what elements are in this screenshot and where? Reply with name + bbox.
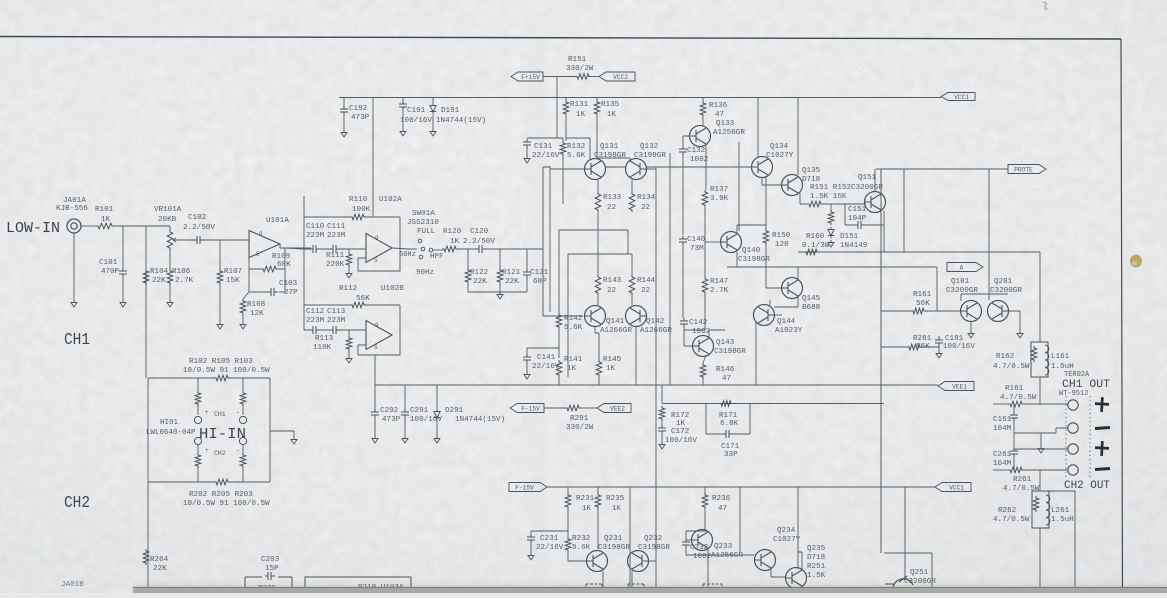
- wire to terminal 3: [1014, 448, 1068, 450]
- svg-text:R151: R151: [568, 56, 587, 64]
- terminal CH1 +: [1068, 400, 1078, 410]
- svg-text:Q145: Q145: [802, 295, 821, 303]
- wire C140 to C142: [682, 245, 684, 318]
- svg-text:R146: R146: [716, 366, 735, 374]
- wire Q140 collector column: [738, 142, 740, 231]
- svg-text:4.7/0.5W: 4.7/0.5W: [1000, 394, 1037, 402]
- wire C191 down: [402, 110, 404, 129]
- svg-text:10/0.5W 91 100/0.5W: 10/0.5W 91 100/0.5W: [183, 367, 270, 375]
- svg-text:C291: C291: [410, 407, 429, 415]
- svg-text:R161: R161: [913, 291, 932, 299]
- svg-text:A1256GR: A1256GR: [713, 129, 745, 137]
- transistor Q134: [752, 157, 773, 178]
- net tag VEE1: [938, 382, 974, 391]
- ground C292: [372, 436, 378, 443]
- transistor Q140: [721, 232, 742, 253]
- capacitor C291: [401, 409, 409, 418]
- wire Q233 base: [686, 539, 692, 541]
- wire down R122: [467, 249, 469, 270]
- resistor R262: [1033, 496, 1039, 512]
- capacitor C112: [310, 326, 320, 334]
- transistor Q233: [692, 530, 713, 551]
- svg-text:R137: R137: [710, 186, 728, 194]
- wire CH2 supply line: [547, 486, 935, 488]
- capacitor C172: [658, 425, 666, 434]
- handwritten plus CH1: [1095, 397, 1110, 413]
- svg-text:C131: C131: [534, 143, 553, 151]
- svg-text:22K: 22K: [153, 565, 167, 573]
- svg-text:D718: D718: [802, 176, 821, 184]
- wire caps net 2: [304, 329, 366, 331]
- wire to R231: [567, 487, 569, 493]
- svg-text:R107: R107: [224, 268, 242, 276]
- centre fold shading: [520, 37, 570, 593]
- resistor R236: [702, 493, 708, 509]
- svg-text:U102B: U102B: [381, 285, 404, 293]
- wire R262 box to bottom: [1039, 528, 1041, 590]
- wire input column: [549, 166, 551, 312]
- resistor R145: [596, 360, 602, 377]
- ground C101: [120, 300, 126, 307]
- svg-text:220K: 220K: [326, 261, 345, 269]
- svg-text:C132: C132: [687, 147, 706, 155]
- ground R106: [167, 300, 173, 307]
- wire U102A out to switch: [392, 248, 417, 249]
- svg-text:5.6K: 5.6K: [567, 152, 586, 160]
- wire output bus: [798, 251, 1040, 253]
- wire Q131 emitter down: [597, 180, 599, 192]
- svg-text:R108: R108: [247, 301, 266, 309]
- wire R135 to Q132: [597, 116, 630, 160]
- resistor R109: [261, 266, 278, 272]
- capacitor C103: [268, 288, 278, 296]
- svg-text:330/2W: 330/2W: [566, 65, 594, 73]
- svg-text:SW01A: SW01A: [412, 210, 435, 218]
- capacitor C111: [330, 245, 340, 253]
- net tag VEE2: [597, 404, 631, 413]
- svg-text:4.7/0.5W: 4.7/0.5W: [993, 363, 1030, 371]
- capacitor C192: [340, 106, 348, 115]
- wire emitters tie 1: [559, 212, 628, 254]
- svg-text:1.5K 15K: 1.5K 15K: [810, 193, 847, 201]
- wire to terminal 4: [1023, 469, 1068, 471]
- wire Q142 emitter to rail: [635, 327, 637, 385]
- wire C121 bottom: [526, 278, 528, 292]
- wire to R262 box: [1039, 470, 1041, 491]
- handwritten plus CH2: [1095, 441, 1110, 457]
- wire rail to C191: [402, 98, 404, 103]
- svg-text:1.5K: 1.5K: [807, 572, 826, 580]
- wire Q144 collector: [769, 300, 771, 306]
- svg-text:110K: 110K: [313, 344, 332, 352]
- wire jack to R101: [81, 225, 96, 227]
- resistor R113: [346, 336, 352, 351]
- svg-text:U102A: U102A: [379, 196, 402, 204]
- ground output mid: [1038, 446, 1044, 453]
- capacitor C121: [523, 269, 531, 278]
- svg-text:Q235: Q235: [807, 545, 826, 553]
- wire R136 to Q133: [702, 117, 704, 126]
- capacitor C161: [1010, 412, 1018, 421]
- svg-text:C161: C161: [993, 416, 1012, 424]
- svg-text:C120: C120: [470, 228, 489, 236]
- pot VR101A element: [167, 230, 173, 250]
- svg-text:C172: C172: [671, 428, 690, 436]
- resistor R162: [1031, 346, 1037, 362]
- svg-text:Q134: Q134: [770, 143, 789, 151]
- zener D291: [434, 409, 440, 421]
- wire Q140 base left: [705, 241, 721, 243]
- wire down to C101: [122, 226, 124, 268]
- wire R142 to R141: [558, 329, 560, 358]
- svg-text:R121: R121: [502, 269, 521, 277]
- wire VCC rail: [339, 97, 941, 99]
- wire C231 lead: [530, 531, 532, 535]
- svg-text:Q144: Q144: [777, 318, 796, 326]
- svg-text:C103: C103: [279, 280, 298, 288]
- resistor R107: [217, 269, 223, 285]
- terminal strip dotted outline: [1066, 396, 1090, 480]
- capacitor C101: [119, 268, 127, 277]
- wire left bus of filter: [303, 196, 305, 330]
- svg-text:15P: 15P: [265, 565, 279, 573]
- resistor R106: [167, 269, 173, 285]
- wire rail to R136: [702, 98, 704, 102]
- svg-text:5: 5: [374, 257, 378, 264]
- svg-text:15K: 15K: [226, 277, 240, 285]
- wire R203 bottom: [242, 468, 244, 482]
- wire C120 to amp input: [485, 248, 543, 250]
- wire R151 to Q151 base: [823, 203, 866, 205]
- svg-text:C121: C121: [530, 269, 549, 277]
- wire R102 top lead: [197, 378, 199, 391]
- resistor R161 output: [1008, 401, 1024, 407]
- wire R232 to Q231 base: [568, 552, 586, 561]
- svg-text:R136: R136: [709, 102, 728, 110]
- resistor R235: [595, 493, 601, 509]
- wire Q151 emitter down: [883, 211, 885, 252]
- R262 L261 damper box: [1032, 491, 1049, 528]
- svg-text:C151: C151: [848, 206, 867, 214]
- capacitor C110: [310, 245, 320, 253]
- ground C231: [528, 553, 534, 560]
- resistor R151b: [807, 201, 823, 207]
- transistor Q231: [587, 551, 608, 572]
- svg-text:5.6K: 5.6K: [572, 544, 591, 552]
- resistor R136: [700, 101, 706, 117]
- svg-text:R133: R133: [603, 194, 622, 202]
- svg-text:R102 R105 R103: R102 R105 R103: [189, 358, 253, 366]
- ground R107: [217, 322, 223, 329]
- wire signal to base column: [543, 167, 550, 249]
- svg-text:C102: C102: [188, 214, 207, 222]
- wire C101 to ground: [122, 277, 124, 300]
- op-amp U101A: [249, 231, 280, 258]
- wire A to base node: [936, 267, 938, 311]
- svg-text:PROTE: PROTE: [1014, 166, 1033, 173]
- right sheet border line: [1121, 39, 1123, 593]
- svg-text:Q181: Q181: [951, 278, 970, 286]
- resistor R120: [442, 246, 458, 252]
- wire C142 to Q143: [684, 327, 693, 346]
- wire Q151 collector up: [874, 169, 876, 192]
- resistor R132: [560, 141, 566, 156]
- wire HI-IN top: [148, 377, 270, 379]
- svg-text:R161: R161: [1005, 385, 1024, 393]
- svg-text:1N4744(15V): 1N4744(15V): [455, 416, 505, 424]
- svg-text:473P: 473P: [351, 114, 370, 122]
- terminal CH2 +: [1068, 444, 1078, 454]
- svg-text:470P: 470P: [101, 268, 120, 276]
- zener D191: [430, 103, 436, 115]
- svg-text:R142: R142: [564, 315, 583, 323]
- transistor Q133: [690, 126, 711, 147]
- resistor R102: [195, 391, 201, 406]
- svg-text:TER02A: TER02A: [1064, 371, 1090, 379]
- svg-text:R110: R110: [349, 196, 368, 204]
- wire Q145 collector: [797, 267, 799, 279]
- resistor R281: [907, 344, 922, 350]
- svg-text:JA01A: JA01A: [63, 197, 86, 205]
- wire R150 to Q145 base: [766, 245, 782, 288]
- svg-text:R204: R204: [150, 556, 169, 564]
- svg-text:22: 22: [607, 287, 617, 295]
- wire damper box to bottom right: [1049, 491, 1075, 590]
- wire rail drop to R110: [372, 97, 374, 217]
- svg-text:12K: 12K: [250, 310, 264, 318]
- svg-text:C110: C110: [306, 223, 325, 231]
- ground C291: [402, 436, 408, 443]
- capacitor C131: [523, 139, 531, 148]
- wire HI-IN left side: [147, 378, 149, 482]
- svg-text:22K: 22K: [473, 278, 487, 286]
- scan table edge bar: [133, 588, 1167, 594]
- wire A node: [727, 266, 937, 268]
- wire junction to R111: [348, 249, 350, 252]
- wire U102A feedback box: [358, 248, 400, 271]
- svg-text:C141: C141: [537, 354, 556, 362]
- svg-text:C261: C261: [993, 451, 1012, 459]
- svg-text:47: 47: [715, 111, 724, 119]
- svg-text:1.5uH: 1.5uH: [1051, 363, 1074, 371]
- svg-text:C171: C171: [721, 443, 740, 451]
- svg-text:R141: R141: [564, 356, 583, 364]
- svg-text:VCC1: VCC1: [954, 94, 969, 101]
- wire junction to R113: [348, 330, 350, 336]
- svg-text:330/2W: 330/2W: [566, 424, 594, 432]
- wire R291 to VEE2: [581, 407, 597, 409]
- net tag VCC1 bottom: [935, 483, 971, 492]
- svg-text:10/0.5W 91 100/0.5W: 10/0.5W 91 100/0.5W: [183, 500, 270, 508]
- wire C181 down: [938, 346, 940, 351]
- wire HI-IN right side: [269, 378, 271, 482]
- svg-text:R131: R131: [570, 101, 589, 109]
- resistor R147: [702, 277, 708, 294]
- svg-text:HI-IN: HI-IN: [199, 426, 246, 443]
- svg-text:F-15V: F-15V: [521, 405, 540, 412]
- transistor Q181: [961, 301, 982, 322]
- svg-text:Q232: Q232: [644, 535, 663, 543]
- resistor R103: [240, 391, 246, 406]
- svg-text:223M: 223M: [327, 317, 346, 325]
- wire Q234 emitter to Q235: [771, 569, 785, 577]
- wire R102 to pin: [197, 406, 199, 415]
- top sheet border line: [0, 37, 1121, 40]
- svg-text:R160: R160: [806, 233, 825, 241]
- resistor R141: [556, 360, 562, 377]
- wire C102 to U101A: [203, 239, 249, 241]
- svg-text:FULL: FULL: [417, 228, 436, 236]
- svg-text:90Hz: 90Hz: [416, 269, 434, 277]
- capacitor C132: [679, 146, 687, 155]
- wire Q181 collector tie: [961, 294, 986, 301]
- wire bus down to L161: [1039, 252, 1041, 342]
- svg-text:68K: 68K: [277, 261, 291, 269]
- svg-text:Q281: Q281: [994, 278, 1013, 286]
- wire C141 down: [526, 362, 528, 372]
- wire to terminal 1: [1023, 403, 1068, 405]
- net tag A: [947, 263, 983, 272]
- svg-text:5: 5: [374, 344, 378, 351]
- svg-text:Q132: Q132: [640, 143, 659, 151]
- wire Q135 emitter: [800, 193, 808, 204]
- resistor R202: [195, 453, 201, 468]
- wire column PROTE-1: [903, 169, 905, 252]
- svg-text:100/16V: 100/16V: [943, 343, 975, 351]
- svg-text:C112: C112: [306, 308, 325, 316]
- svg-text:1.5uH: 1.5uH: [1051, 516, 1074, 524]
- svg-text:KJB-556: KJB-556: [56, 205, 88, 213]
- wire C172 down: [661, 433, 663, 442]
- terminal CH2 -: [1068, 465, 1078, 475]
- svg-text:R120: R120: [443, 228, 462, 236]
- wire CH2 column 1: [629, 487, 631, 593]
- wire CH2 input column: [147, 482, 149, 593]
- transistor Q281: [988, 301, 1009, 322]
- resistor R143: [595, 275, 601, 295]
- wire Q140 emitter down: [736, 252, 738, 267]
- svg-text:68P: 68P: [533, 278, 547, 286]
- svg-text:223M: 223M: [306, 232, 325, 240]
- capacitor C141: [523, 354, 531, 363]
- ground C131: [524, 156, 530, 163]
- handwritten minus CH1: [1095, 427, 1110, 428]
- wire R132 leads: [562, 138, 564, 204]
- resistor R146: [700, 363, 706, 379]
- net tag F-15V bottom: [509, 483, 547, 492]
- wire C192 down: [343, 115, 345, 130]
- net tag F+15V: [511, 72, 543, 81]
- svg-text:R106: R106: [172, 268, 191, 276]
- wire emitters tie 2: [568, 254, 632, 377]
- svg-text:223M: 223M: [327, 232, 346, 240]
- svg-text:R251: R251: [807, 563, 826, 571]
- dashed cut component stubs: [586, 584, 722, 588]
- wire R161o left: [993, 403, 1009, 405]
- svg-text:R202 R205 R203: R202 R205 R203: [189, 491, 253, 499]
- svg-text:CH1: CH1: [214, 411, 226, 418]
- wire D291 down: [436, 421, 438, 436]
- resistor R133: [595, 192, 601, 212]
- transistor Q235: [786, 568, 807, 589]
- svg-text:-: -: [236, 447, 240, 454]
- wire R281 to C181: [922, 346, 939, 348]
- ground R108: [240, 322, 246, 329]
- svg-text:1K: 1K: [567, 365, 577, 373]
- svg-text:Q151: Q151: [858, 174, 877, 182]
- wire C292 down: [374, 418, 376, 436]
- svg-text:1N4744(15V): 1N4744(15V): [436, 117, 486, 125]
- ground HI-IN: [291, 437, 297, 444]
- resistor R110: [350, 214, 366, 220]
- svg-text:22K: 22K: [505, 278, 519, 286]
- svg-text:104M: 104M: [993, 460, 1012, 468]
- wire bus to bottom: [884, 553, 932, 593]
- wire switch to R120: [433, 249, 443, 251]
- svg-text:Q231: Q231: [604, 535, 623, 543]
- svg-text:1002: 1002: [693, 553, 712, 561]
- capacitor C120: [476, 245, 486, 253]
- svg-text:R231: R231: [576, 495, 595, 503]
- wire Q181 emitter: [970, 321, 972, 331]
- svg-text:F-15V: F-15V: [515, 484, 534, 491]
- resistor R150: [763, 229, 769, 245]
- wire box right bottom: [399, 305, 401, 335]
- wire mid ground stub: [1040, 433, 1042, 446]
- svg-text:R281: R281: [913, 335, 932, 343]
- wire rail to C192: [343, 98, 345, 108]
- capacitor C232: [682, 539, 690, 548]
- svg-text:22: 22: [607, 204, 617, 212]
- wire C141 stub: [527, 347, 559, 349]
- wire Q281 emitter: [1008, 311, 1020, 331]
- wire to R143: [597, 230, 599, 275]
- op-amp U102B: [366, 321, 392, 350]
- capacitor C292: [371, 409, 379, 418]
- wire C131 stub: [527, 137, 563, 139]
- resistor R172: [659, 406, 665, 421]
- transistor Q143: [693, 336, 714, 357]
- svg-text:100K: 100K: [352, 206, 371, 214]
- wire R231 to R232: [567, 509, 569, 537]
- wire R261 left: [993, 469, 1009, 471]
- svg-text:C111: C111: [327, 223, 346, 231]
- wire Q231 emitter down: [602, 571, 604, 587]
- svg-text:9: 9: [259, 231, 263, 238]
- resistor R291: [565, 405, 581, 411]
- wire Q133 base to C132: [683, 136, 690, 146]
- svg-text:Q133: Q133: [716, 120, 735, 128]
- svg-text:R144: R144: [637, 277, 656, 285]
- wire D191 down: [432, 115, 434, 129]
- wire R151 to VCC2: [591, 76, 599, 78]
- wire R202 top: [197, 445, 199, 453]
- wire R141 to rail: [558, 377, 560, 385]
- wire R281 left: [881, 346, 908, 348]
- svg-text:C232: C232: [690, 544, 709, 552]
- wire F+15V to R151: [543, 76, 576, 78]
- wire R147 to Q143 base: [684, 294, 705, 330]
- transistor Q132: [626, 159, 647, 180]
- wire to R152: [830, 204, 832, 210]
- ground C141: [524, 372, 530, 379]
- svg-text:LOW-IN: LOW-IN: [6, 220, 60, 237]
- resistor R135: [594, 100, 600, 116]
- svg-text:R147: R147: [710, 278, 728, 286]
- svg-text:L161: L161: [1051, 353, 1070, 361]
- svg-text:22/16V: 22/16V: [532, 152, 560, 160]
- svg-text:D718: D718: [807, 554, 826, 562]
